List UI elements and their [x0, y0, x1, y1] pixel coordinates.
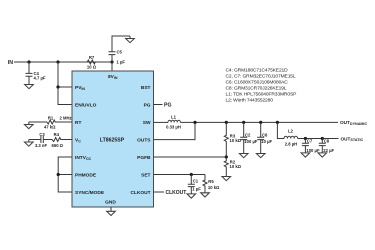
pin VC label [75, 138, 81, 144]
wire OUTS loop [154, 122, 196, 139]
svg-text:1 µF: 1 µF [192, 186, 201, 191]
junction PHMODE [57, 173, 60, 176]
ground [239, 151, 248, 158]
svg-text:SET: SET [141, 173, 150, 179]
U1 part number LT8625SP [100, 137, 125, 143]
svg-text:L1: TDK HPL756040FR33MR0SP: L1: TDK HPL756040FR33MR0SP [226, 92, 297, 98]
svg-text:C8: C8 [324, 139, 330, 144]
ground [126, 36, 135, 43]
svg-text:C8: GRM31CR70J226KE19L: C8: GRM31CR70J226KE19L [226, 86, 287, 92]
ground [256, 151, 265, 158]
capacitor C5 [109, 36, 131, 62]
svg-text:PGFB: PGFB [137, 155, 151, 161]
wire INTVCC/PHMODE/SYNC bracket [58, 157, 72, 192]
junction PVIN branch node [56, 60, 59, 63]
wire SET [154, 174, 206, 176]
svg-text:OUTSTATIC: OUTSTATIC [341, 136, 364, 142]
svg-text:RT: RT [75, 120, 81, 126]
svg-text:L1: L1 [171, 115, 177, 120]
svg-text:2.8 µH: 2.8 µH [285, 142, 297, 147]
junction C4 node [27, 60, 30, 63]
pin SET label [141, 173, 150, 179]
pin GND label [105, 200, 116, 206]
svg-text:0.33 µH: 0.33 µH [166, 124, 181, 129]
pin PGFB label [137, 155, 151, 161]
pin CLKOUT label [131, 190, 151, 196]
capacitor C3 [29, 136, 44, 143]
svg-text:C3: C3 [39, 132, 45, 137]
ground [25, 122, 34, 129]
junction C7 [304, 137, 307, 140]
pin 8VIN label [108, 74, 118, 80]
svg-text:3.3 nF: 3.3 nF [35, 143, 48, 148]
pin PHMODE label [75, 173, 97, 179]
junction C6 top [259, 121, 262, 124]
svg-text:R5: R5 [208, 179, 214, 184]
svg-text:10 kΩ: 10 kΩ [230, 138, 242, 143]
pin PG label [144, 103, 151, 109]
svg-text:10 kΩ: 10 kΩ [230, 164, 242, 169]
svg-text:650 Ω: 650 Ω [52, 143, 64, 148]
junction R3 top [225, 121, 228, 124]
svg-text:R7: R7 [89, 55, 95, 60]
svg-text:100 µF: 100 µF [244, 139, 258, 144]
resistor R5 [203, 175, 207, 191]
junction L1 out [193, 121, 196, 124]
svg-text:2 MHz: 2 MHz [60, 116, 72, 121]
svg-text:C6: C6 [262, 132, 268, 137]
svg-text:22 µF: 22 µF [323, 148, 334, 153]
svg-text:100 µF: 100 µF [306, 148, 320, 153]
pin INTVCC label [75, 155, 92, 161]
resistor R4 [43, 138, 72, 142]
junction C8 [321, 137, 324, 140]
ground [201, 190, 210, 197]
pin SW label [143, 120, 151, 126]
ground [25, 140, 34, 147]
svg-text:SYNC/MODE: SYNC/MODE [75, 190, 105, 196]
capacitor C7 [302, 139, 309, 151]
node OUT STATIC label [341, 136, 364, 142]
node PG label [164, 102, 172, 108]
junction C1 [190, 173, 193, 176]
ground [25, 82, 34, 89]
pin PVIN label [75, 85, 85, 91]
svg-text:LT8625SP: LT8625SP [100, 137, 125, 143]
junction C2 top [242, 121, 245, 124]
resistor R7 [87, 60, 95, 64]
svg-text:4.7 µF: 4.7 µF [34, 76, 46, 81]
svg-text:GND: GND [105, 200, 116, 206]
svg-text:L2: Würth 7443552280: L2: Würth 7443552280 [226, 98, 274, 104]
capacitor C2 [240, 122, 247, 151]
inductor L1 [168, 120, 180, 122]
svg-text:C7: C7 [307, 139, 313, 144]
resistor R1 [29, 120, 72, 124]
svg-text:47 kΩ: 47 kΩ [44, 125, 56, 130]
wire static rail [298, 138, 339, 140]
svg-text:C6: C1608X7S0J106M080AC: C6: C1608X7S0J106M080AC [226, 80, 289, 86]
svg-text:BST: BST [141, 85, 151, 91]
junction L2 branch [276, 121, 279, 124]
wire 8VIN pin [111, 62, 113, 71]
wire CLKOUT [154, 191, 165, 193]
capacitor C1 [188, 175, 195, 192]
pin EN/UVLO label [75, 103, 97, 109]
capacitor C8 [319, 139, 326, 151]
wire L2 branch [277, 122, 284, 138]
svg-text:PHMODE: PHMODE [75, 173, 97, 179]
svg-text:C4: GRM188C71C475KE21D: C4: GRM188C71C475KE21D [226, 68, 289, 74]
svg-text:10 µF: 10 µF [261, 139, 272, 144]
resistor R2 [224, 157, 228, 174]
svg-text:C1: C1 [193, 179, 199, 184]
wire PGFB [154, 156, 227, 158]
svg-text:L2: L2 [288, 128, 294, 133]
pin BST label [141, 85, 151, 91]
node 2MHz label [60, 116, 72, 121]
node IN label [8, 60, 13, 66]
svg-text:IN: IN [8, 60, 13, 66]
junction PVIN [56, 85, 59, 88]
node OUT DYNAMIC label [340, 120, 367, 126]
junction 8VIN node [110, 60, 113, 63]
op-amp U1 LT8625SP body [72, 71, 154, 207]
svg-text:10 Ω: 10 Ω [87, 64, 97, 69]
junction PGFB [225, 155, 228, 158]
wire GND pin [110, 207, 112, 209]
capacitor C4 [26, 62, 33, 82]
svg-text:OUTDYNAMIC: OUTDYNAMIC [340, 120, 367, 126]
ground [187, 191, 196, 198]
svg-text:C2, C7: GRM32EC70J107ME15L: C2, C7: GRM32EC70J107ME15L [226, 74, 296, 80]
ground [222, 174, 231, 181]
svg-text:1 µF: 1 µF [117, 60, 126, 65]
svg-text:PG: PG [164, 102, 172, 108]
inductor L2 [284, 136, 298, 138]
svg-text:R4: R4 [54, 132, 60, 137]
svg-text:PG: PG [144, 103, 151, 109]
ground [318, 150, 327, 157]
pin SYNC/MODE label [75, 190, 105, 196]
svg-text:OUTS: OUTS [137, 138, 151, 144]
ground [301, 150, 310, 157]
pin RT label [75, 120, 81, 126]
svg-text:EN/UVLO: EN/UVLO [75, 103, 97, 109]
svg-text:R1: R1 [48, 115, 54, 120]
capacitor C6 [257, 122, 264, 151]
svg-text:C5: C5 [117, 49, 123, 54]
svg-text:C2: C2 [245, 132, 251, 137]
resistor R3 [224, 122, 228, 157]
wire output rail [180, 121, 338, 123]
svg-text:10 kΩ: 10 kΩ [208, 185, 220, 190]
svg-text:SW: SW [143, 120, 151, 126]
ground [107, 209, 116, 216]
wire SW [154, 121, 169, 123]
pin OUTS label [137, 138, 151, 144]
wire PVIN/EN bracket [58, 62, 72, 105]
wire input rail [14, 61, 112, 63]
note BOM list [226, 68, 297, 104]
svg-text:CLKOUT: CLKOUT [166, 190, 187, 196]
wire PG [154, 104, 163, 106]
svg-text:CLKOUT: CLKOUT [131, 190, 151, 196]
node CLKOUT label [166, 190, 187, 196]
